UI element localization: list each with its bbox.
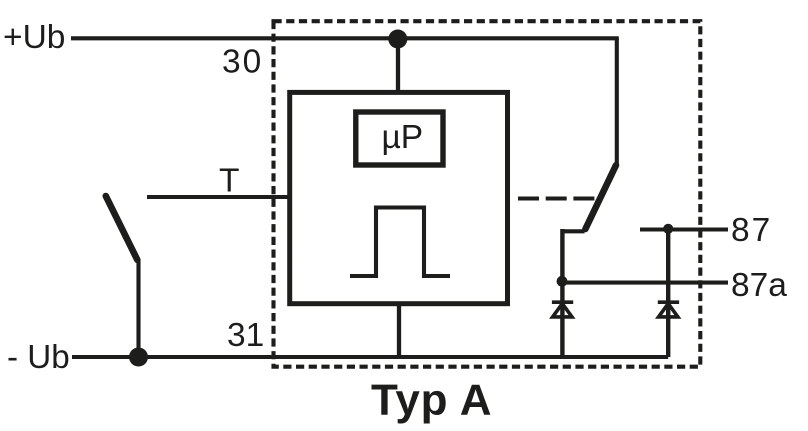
node 30 supply junction — [388, 30, 407, 49]
wire contact throw seat — [562, 229, 584, 233]
node 87 junction — [663, 224, 673, 234]
wire node to control box top — [396, 39, 400, 92]
switch S1 lever (left) — [106, 196, 138, 260]
node 87a junction — [557, 276, 568, 287]
svg-text:30: 30 — [222, 44, 263, 81]
dashed relay enclosure border — [274, 21, 701, 367]
wire coil feed vertical (right) — [615, 38, 619, 164]
wire control box bottom to ground rail — [397, 304, 401, 357]
wire T input — [147, 195, 290, 199]
diode D2 (right) — [658, 302, 679, 317]
wire switch pole to -Ub node — [136, 259, 140, 357]
svg-text:+Ub: +Ub — [3, 19, 65, 56]
dashed actuation link — [518, 196, 595, 200]
svg-text:- Ub: - Ub — [7, 339, 70, 376]
wire 87a rail — [562, 281, 728, 285]
pulse waveform symbol — [350, 208, 450, 277]
wire 87 drop to ground rail (through right diode) — [666, 229, 670, 357]
svg-text:T: T — [219, 163, 239, 200]
svg-text:Typ A: Typ A — [371, 376, 492, 425]
svg-text:87: 87 — [731, 212, 772, 249]
control box — [290, 92, 508, 303]
wire +Ub supply rail — [71, 36, 619, 40]
diode D1 (left) — [552, 302, 573, 317]
microprocessor box µP — [356, 112, 443, 165]
svg-text:31: 31 — [227, 317, 264, 354]
svg-text:µP: µP — [382, 119, 424, 156]
svg-text:87a: 87a — [731, 267, 787, 304]
wire -Ub / 31 ground rail — [72, 355, 668, 359]
wire 87 rail — [640, 227, 728, 231]
node -Ub junction — [129, 348, 148, 367]
wire throw down to ground rail (through left diode) — [560, 229, 564, 357]
relay contact arm (right switch) — [585, 165, 616, 229]
